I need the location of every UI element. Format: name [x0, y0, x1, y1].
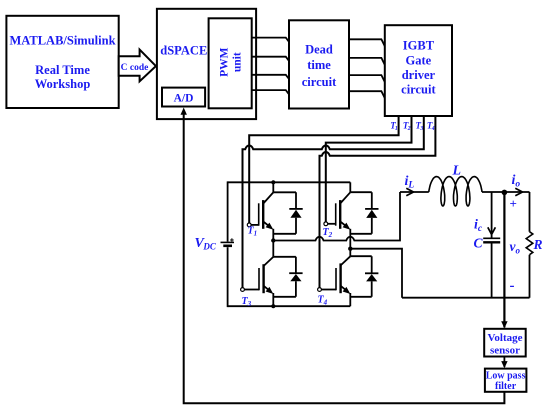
wire voltage sensor to low pass filter: [503, 357, 505, 368]
wire gate drive T3: [243, 116, 424, 288]
diode D3 triangle: [290, 274, 301, 281]
wire phase A output with hops: [273, 192, 400, 241]
transistor T3 gate bar: [258, 268, 260, 290]
transistor T4 emitter arrowhead: [343, 287, 351, 294]
svg-text:time: time: [307, 58, 331, 72]
capacitor C plate top: [483, 237, 500, 239]
block Dead time circuit: [289, 20, 349, 108]
wire gate drive T2: [326, 116, 412, 222]
svg-text:PWM: PWM: [219, 47, 231, 77]
capacitor C plate bottom: [483, 241, 500, 243]
wire gate drive T1: [249, 116, 398, 223]
svg-text:C: C: [474, 235, 484, 250]
gate lead T2: [328, 223, 336, 225]
block IGBT Gate driver circuit: [385, 25, 452, 116]
wire T1 diode branch bottom: [273, 233, 296, 235]
transistor T1 body bar: [262, 200, 264, 229]
transistor T4 emitter diagonal: [341, 286, 347, 291]
wire T2 diode branch top: [350, 191, 372, 193]
wire T2 diode branch bottom: [350, 233, 372, 235]
transistor T4 collector diagonal: [341, 256, 351, 265]
node io junction: [502, 190, 508, 196]
wire PWM to dead-time line 1: [252, 38, 289, 42]
diode D4 cathode bar: [365, 272, 378, 274]
transistor T1 emitter diagonal: [263, 221, 269, 226]
transistor T2 body bar: [339, 200, 341, 229]
svg-text:sensor: sensor: [490, 344, 520, 356]
wire PWM to dead-time line 3: [252, 75, 289, 79]
svg-text:A/D: A/D: [174, 93, 194, 105]
diode D1 triangle: [290, 210, 301, 218]
inductor L coil: [429, 177, 482, 206]
transistor T4 body bar: [339, 263, 341, 293]
resistor R branch wire: [529, 192, 531, 298]
svg-text:filter: filter: [495, 381, 517, 392]
svg-text:IGBT: IGBT: [403, 39, 435, 53]
block dSPACE: [157, 9, 256, 119]
diode D2 cathode bar: [365, 208, 378, 210]
wire dead-time to IGBT driver line 1: [349, 39, 385, 46]
wire T3 diode branch bottom: [273, 296, 296, 298]
arrowhead into A/D: [181, 108, 187, 115]
wire gate drive T4: [320, 116, 436, 288]
diode D2 triangle: [366, 210, 377, 218]
transistor T2 collector wire: [349, 182, 351, 192]
wire PWM to dead-time line 2: [252, 57, 289, 61]
diode D4 triangle: [366, 274, 377, 281]
transistor T1 gate bar: [258, 203, 260, 225]
node phase A junction: [271, 238, 275, 242]
junction bottom rail / T3 emitter: [271, 304, 275, 308]
svg-text:R: R: [533, 237, 543, 252]
svg-text:Dead: Dead: [305, 43, 333, 57]
svg-text:driver: driver: [402, 68, 436, 82]
transistor T2 emitter diagonal: [340, 221, 346, 226]
arrowhead into low pass filter: [501, 361, 507, 368]
gate lead T3: [244, 289, 259, 291]
svg-text:dSPACE: dSPACE: [160, 44, 207, 58]
transistor T1 emitter arrowhead: [266, 223, 274, 230]
wire T3 emitter down: [272, 293, 274, 306]
transistor T2 gate bar: [335, 203, 337, 225]
wire T1 diode branch top: [273, 191, 296, 193]
wire DC bus top rail: [228, 181, 351, 183]
block A/D converter: [162, 88, 205, 107]
arrow C code: [119, 50, 156, 82]
svg-text:Real Time: Real Time: [35, 63, 90, 77]
wire T2 emitter down: [349, 229, 351, 249]
wire T4 emitter down: [349, 293, 351, 306]
diode D2 anode/cathode wires: [371, 192, 373, 234]
wire inductor to node: [482, 191, 530, 193]
diode D3 cathode bar: [289, 272, 302, 274]
block PWM unit: [209, 18, 252, 108]
wire phase B output down: [350, 249, 402, 298]
block Low pass filter: [485, 369, 527, 393]
wire T4 diode branch bottom: [350, 296, 371, 298]
transistor T4 collector wire: [349, 249, 351, 257]
svg-text:Gate: Gate: [406, 53, 432, 67]
arrowhead io: [515, 188, 522, 196]
transistor T2 collector diagonal: [340, 192, 350, 203]
junction top rail / T1 collector: [271, 180, 275, 184]
wire dead-time to IGBT driver line 2: [349, 58, 385, 65]
wire dead-time to IGBT driver line 3: [349, 75, 385, 82]
block Voltage sensor: [484, 329, 526, 357]
wire T1 emitter down: [272, 229, 274, 241]
battery plus sign: [230, 238, 234, 241]
diode D3 anode/cathode wires: [295, 257, 297, 297]
svg-text:L: L: [452, 164, 462, 179]
svg-text:unit: unit: [232, 52, 244, 72]
svg-text:Low pass: Low pass: [486, 371, 526, 382]
transistor T4 gate bar: [335, 268, 337, 290]
wire PWM to dead-time line 4: [252, 90, 289, 94]
svg-text:Workshop: Workshop: [35, 77, 91, 91]
wire left rail lower: [227, 247, 229, 307]
transistor T3 emitter arrowhead: [266, 287, 274, 294]
svg-text:circuit: circuit: [401, 83, 436, 97]
svg-text:C code: C code: [121, 63, 149, 73]
transistor Q T1 collector wire: [272, 182, 274, 192]
transistor T2 emitter arrowhead: [343, 223, 351, 230]
gate terminal circle T4: [318, 288, 322, 292]
battery VDC plate long: [221, 241, 235, 243]
wire left rail upper: [227, 181, 229, 241]
gate terminal circle T3: [241, 288, 245, 292]
svg-text:+: +: [510, 196, 517, 211]
transistor T3 collector wire: [272, 241, 274, 257]
diode D1 anode/cathode wires: [295, 192, 297, 234]
arrowhead iL: [406, 188, 413, 196]
svg-text:-: -: [510, 278, 515, 294]
wire T4 diode branch top: [350, 255, 371, 257]
diode D1 cathode bar: [289, 208, 302, 210]
battery VDC plate short: [223, 245, 232, 248]
capacitor C branch wire lower: [491, 242, 493, 297]
wire DC bus bottom rail: [228, 305, 351, 307]
gate terminal circle T1: [247, 223, 251, 227]
wire feedback to A/D: [184, 111, 505, 403]
diode D4 anode/cathode wires: [371, 256, 373, 297]
wire output bottom line: [402, 297, 530, 299]
wire T3 diode branch top: [273, 256, 296, 258]
gate terminal circle T2: [324, 222, 328, 226]
svg-text:MATLAB/Simulink: MATLAB/Simulink: [9, 34, 115, 48]
arrowhead into voltage sensor: [501, 321, 507, 328]
transistor T3 emitter diagonal: [264, 286, 270, 291]
wire output top to inductor: [400, 191, 429, 193]
block MATLAB/Simulink Real Time Workshop: [6, 16, 118, 108]
gate lead T1: [251, 224, 259, 226]
resistor R zigzag: [526, 232, 533, 255]
node phase B junction: [348, 247, 352, 251]
transistor T1 collector diagonal: [263, 192, 273, 203]
gate lead T4: [321, 289, 336, 291]
svg-text:Voltage: Voltage: [487, 332, 522, 344]
wire dead-time to IGBT driver line 4: [349, 91, 385, 98]
arrowhead ic: [488, 227, 496, 234]
transistor T3 body bar: [262, 264, 264, 293]
svg-text:circuit: circuit: [302, 75, 337, 89]
transistor T3 collector diagonal: [264, 257, 274, 266]
wire vo sense line: [503, 192, 505, 327]
capacitor C branch wire upper: [491, 192, 493, 238]
